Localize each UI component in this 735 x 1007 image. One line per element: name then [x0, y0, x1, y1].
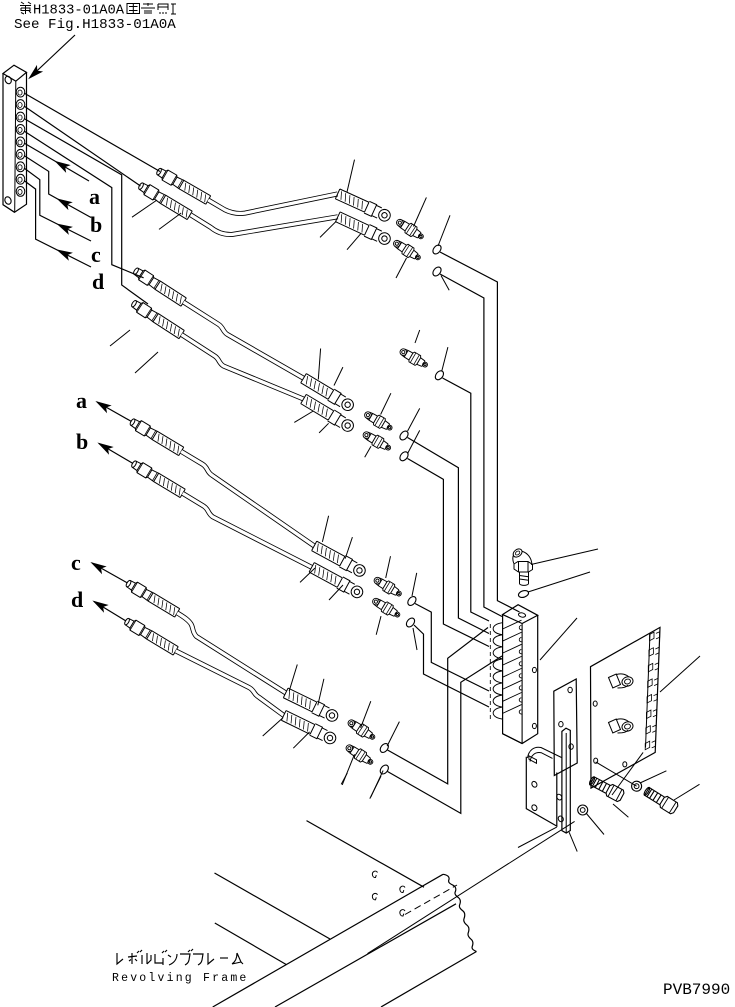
clamp slot 5	[647, 694, 652, 703]
line port5 label a	[24, 143, 89, 181]
o-ring g5b	[379, 763, 391, 775]
o-ring 2a	[398, 429, 410, 441]
port face line 7	[503, 693, 522, 702]
port face line 6	[503, 680, 522, 689]
frame bolt hole c1	[372, 871, 377, 877]
bracket base plate	[526, 757, 557, 826]
o-ring g2	[434, 369, 446, 381]
nipple g5b	[344, 742, 376, 768]
leader from bolt1	[613, 804, 628, 817]
port face line 2	[503, 632, 522, 641]
nipple 2a	[362, 409, 394, 434]
p-clamp 1	[621, 675, 634, 687]
clamp slot 4	[648, 679, 653, 688]
arrowhead hose a	[95, 399, 110, 412]
arrowhead c	[56, 221, 71, 233]
hose 1 tube	[208, 194, 337, 214]
hose 2 tube	[191, 215, 338, 235]
port circle 3	[519, 650, 522, 654]
hose c left fitting	[124, 578, 180, 618]
washer 2	[632, 781, 642, 791]
leader to nipple g2	[415, 330, 420, 343]
leader to hose4 sleeve	[135, 352, 158, 373]
bracket bend	[528, 747, 562, 761]
hose 3 left fitting	[131, 265, 186, 307]
leader hose4 nut	[319, 423, 329, 433]
leader to o-ring g5a	[387, 722, 399, 747]
clamp plate outline	[591, 627, 661, 788]
leader to hose a sleeve	[322, 516, 328, 542]
o-ring 1a	[431, 243, 443, 255]
clamp plate hole 3	[623, 762, 627, 767]
leader to hose d cap	[293, 732, 309, 748]
leader to sleeve 2 left	[159, 213, 181, 229]
arrowhead b	[56, 196, 71, 209]
leader to sleeve 1	[347, 160, 355, 192]
line port2 to hose2 fitting	[24, 106, 141, 186]
washer 1	[578, 805, 588, 815]
hose 2 left fitting	[137, 180, 193, 220]
left manifold mounting hole bottom	[4, 196, 13, 205]
leader to o-ring g2	[442, 347, 448, 371]
port face line 1	[503, 620, 522, 629]
clamp plate hole 1	[593, 701, 597, 706]
hose 4 right end	[300, 394, 356, 434]
port face line 5	[503, 668, 522, 677]
leader from washer2	[640, 771, 666, 783]
leader to o-ring g4b	[413, 628, 417, 650]
route g2 to port2	[443, 378, 490, 621]
hose d right end	[281, 710, 338, 747]
leader to nipple 1a	[414, 197, 427, 226]
port face line 8	[503, 705, 522, 714]
hose 4 left fitting	[129, 298, 184, 340]
route g3a to port3	[408, 438, 490, 634]
left manifold port 3	[16, 112, 25, 122]
left manifold port 9	[16, 187, 25, 197]
clamp slot 2	[649, 648, 654, 657]
o-ring g4a	[406, 595, 418, 607]
frame bolt hole c2	[400, 886, 405, 892]
hose a right end	[311, 540, 367, 579]
hose d tube	[176, 651, 284, 716]
frame hidden bolt line	[405, 885, 457, 915]
clamp rail line	[646, 633, 651, 748]
title leader line	[32, 35, 75, 76]
route g4a to port6	[415, 604, 489, 692]
hose 4 tube	[182, 335, 304, 399]
bolt 2	[642, 785, 679, 815]
hose 3 tube	[184, 302, 304, 378]
clamp slot 6	[646, 710, 651, 719]
frame beam bottom edge	[381, 952, 477, 1007]
svg-text:a: a	[76, 388, 87, 413]
line port4 staircase	[24, 131, 144, 278]
nipple g2	[398, 346, 430, 371]
port circle 4	[519, 662, 522, 666]
arrowhead hose d	[92, 598, 107, 611]
p-clamp 2	[621, 720, 634, 732]
leader to nipple g5b	[342, 754, 354, 785]
nipple 2b	[361, 429, 393, 454]
leader to nipple 1b	[396, 258, 407, 278]
hose d left fitting	[123, 616, 179, 656]
svg-text:See Fig.H1833-01A0A: See Fig.H1833-01A0A	[14, 17, 176, 33]
hose a tube	[181, 451, 314, 546]
left manifold port 6	[16, 149, 25, 159]
svg-text:b: b	[90, 212, 102, 237]
left manifold port 4	[16, 124, 25, 134]
nipple 1b	[391, 237, 423, 263]
bracket base hole 2	[531, 804, 538, 812]
arrowhead d	[56, 247, 71, 259]
leader from clamp plate	[660, 656, 700, 692]
bracket back plate hole low	[569, 744, 573, 749]
frame bolt hole c3	[372, 893, 377, 899]
line port3 staircase	[24, 119, 148, 305]
leader plate to washer2	[596, 762, 637, 786]
frame leader stub 1	[341, 773, 347, 784]
arrowhead a	[54, 159, 69, 172]
leader to hose c cap	[318, 679, 324, 706]
leader to elbow o-ring	[528, 572, 590, 592]
frame cross edge 2	[215, 873, 331, 939]
hose b tube	[183, 493, 312, 567]
frame cross edge 1	[307, 821, 425, 888]
leader to nipple g4a	[386, 556, 391, 578]
right face hole b	[532, 723, 536, 728]
leader to o-ring g5b	[371, 771, 383, 798]
bracket base hole 3	[556, 793, 563, 801]
arrowhead hose b	[97, 440, 112, 453]
leader from bracket right	[569, 832, 577, 851]
right manifold block body	[503, 605, 538, 624]
pointer line hose c	[92, 563, 128, 583]
title kanji 第	[20, 2, 31, 14]
hose 1 right end	[335, 188, 392, 223]
svg-text:c: c	[91, 242, 101, 267]
svg-text:d: d	[92, 269, 104, 294]
nipple g4a	[372, 574, 404, 599]
leader to fitting 2 tip	[132, 200, 157, 217]
frame bolt hole c4	[400, 910, 405, 916]
left manifold port 7	[16, 162, 25, 172]
svg-text:PVB7990: PVB7990	[663, 981, 730, 999]
title kanji 図参照	[127, 4, 140, 14]
line port1 to hose1 fitting	[24, 93, 160, 172]
clamp slot 1	[650, 632, 655, 641]
leader to o-ring 1b	[441, 276, 449, 291]
pointer line hose b	[99, 444, 133, 464]
leader crossing to bolt1	[612, 752, 643, 795]
bracket back plate hole mid	[559, 722, 563, 727]
hose c right end	[283, 687, 340, 724]
port circle 7	[519, 698, 522, 702]
leader to hose2 nut	[347, 233, 361, 249]
leader to hose a cap	[345, 537, 352, 559]
bracket upright strip	[562, 728, 570, 833]
bracket back plate	[554, 679, 577, 776]
bracket back plate hole top	[568, 687, 572, 692]
title leader arrowhead	[27, 67, 41, 81]
leader to hose3 sleeve	[110, 330, 130, 346]
hose 1 left fitting	[155, 166, 211, 205]
hose 2 right end	[335, 211, 392, 247]
frame cross edge 3	[215, 923, 287, 965]
pointer line hose a	[97, 402, 132, 422]
leader from bracket left	[518, 827, 557, 847]
route g4b to port8	[414, 625, 489, 707]
leader to bolt2	[674, 784, 700, 800]
leader to o-ring 2b	[408, 430, 420, 453]
left manifold port 2	[16, 100, 25, 110]
leader hose4 right	[294, 411, 313, 422]
leader to right manifold	[540, 618, 577, 660]
arrowhead hose c	[90, 560, 105, 573]
nipple 1a	[394, 216, 426, 242]
o-ring under elbow	[518, 589, 530, 598]
leader to o-ring g4a	[412, 573, 417, 596]
hose b right end	[309, 562, 365, 601]
line port6 label b	[24, 156, 91, 218]
hose a left fitting	[128, 416, 184, 456]
port face line 4	[503, 656, 522, 665]
port circle 5	[519, 674, 522, 678]
bracket base hole 1	[531, 781, 538, 789]
leader to nipple g4b	[376, 616, 381, 635]
nipple g4b	[370, 595, 402, 620]
svg-text:a: a	[89, 184, 100, 209]
o-ring 1b	[431, 265, 443, 277]
line port7 label c	[24, 168, 91, 241]
port face line 3	[503, 644, 522, 653]
leader to hose2 right sleeve	[320, 221, 336, 237]
port circle 2	[519, 638, 522, 642]
right face hole a	[532, 667, 536, 672]
long leader bracket to frame	[368, 821, 575, 953]
leader from washer1	[586, 813, 604, 835]
clamp slot 7	[646, 726, 651, 735]
hose c tube	[177, 613, 286, 693]
elbow fitting	[520, 572, 529, 585]
leader to nipple 2b	[365, 446, 371, 457]
svg-text:c: c	[71, 550, 81, 575]
leader to hose b sleeve	[300, 568, 315, 582]
clamp slot 3	[648, 663, 653, 672]
o-ring g5a	[379, 742, 391, 754]
leader to o-ring 1a	[438, 215, 450, 246]
clamp slot 8	[645, 741, 650, 750]
o-ring g4b	[405, 616, 417, 628]
hose b left fitting	[130, 458, 186, 498]
leader to nipple g5a	[361, 701, 371, 728]
left manifold block body	[3, 65, 27, 81]
leader pair2 sleeve right a	[318, 349, 320, 380]
bracket base hole 4	[557, 815, 564, 823]
left manifold port 5	[16, 137, 25, 147]
o-ring 2b	[398, 450, 410, 462]
left manifold port 1	[16, 87, 25, 97]
hidden line through bosses	[489, 624, 491, 719]
leader to nipple 2a	[381, 393, 391, 414]
frame leader stub 2	[370, 776, 381, 799]
route g5b to port	[388, 656, 503, 813]
left manifold mounting hole top	[4, 75, 13, 84]
svg-text:Revolving Frame: Revolving Frame	[112, 972, 249, 985]
right manifold port bosses	[493, 623, 502, 719]
bolt 1	[588, 774, 626, 802]
left manifold port 8	[16, 174, 25, 184]
text revolving frame katakana	[117, 953, 123, 964]
route g5a to port	[388, 628, 489, 784]
route g1b to port1	[440, 274, 502, 617]
leader to o-ring 2a	[408, 408, 420, 431]
pointer line hose d	[94, 602, 126, 622]
port circle 1	[519, 626, 522, 630]
leader pair2 sleeve right b	[334, 367, 343, 385]
clamp plate hole 2	[594, 758, 598, 763]
right manifold top hole	[518, 612, 526, 618]
leader to hose c sleeve	[289, 665, 297, 692]
leader to elbow	[531, 549, 598, 565]
svg-text:b: b	[76, 429, 88, 454]
leader to hose d sleeve	[263, 718, 283, 736]
port circle 8	[519, 710, 522, 714]
hose 3 right end	[300, 373, 356, 413]
line port8 label d	[24, 181, 91, 268]
port circle 6	[519, 686, 522, 690]
route g1a to top port	[440, 252, 520, 612]
nipple g5a	[346, 717, 378, 743]
svg-text:d: d	[71, 587, 83, 612]
frame beam inner edge	[275, 904, 456, 1007]
frame beam top edge	[213, 874, 443, 1007]
frame break edge	[443, 874, 477, 951]
leader to hose b cap	[329, 585, 343, 600]
route g3b to port4	[408, 459, 490, 647]
